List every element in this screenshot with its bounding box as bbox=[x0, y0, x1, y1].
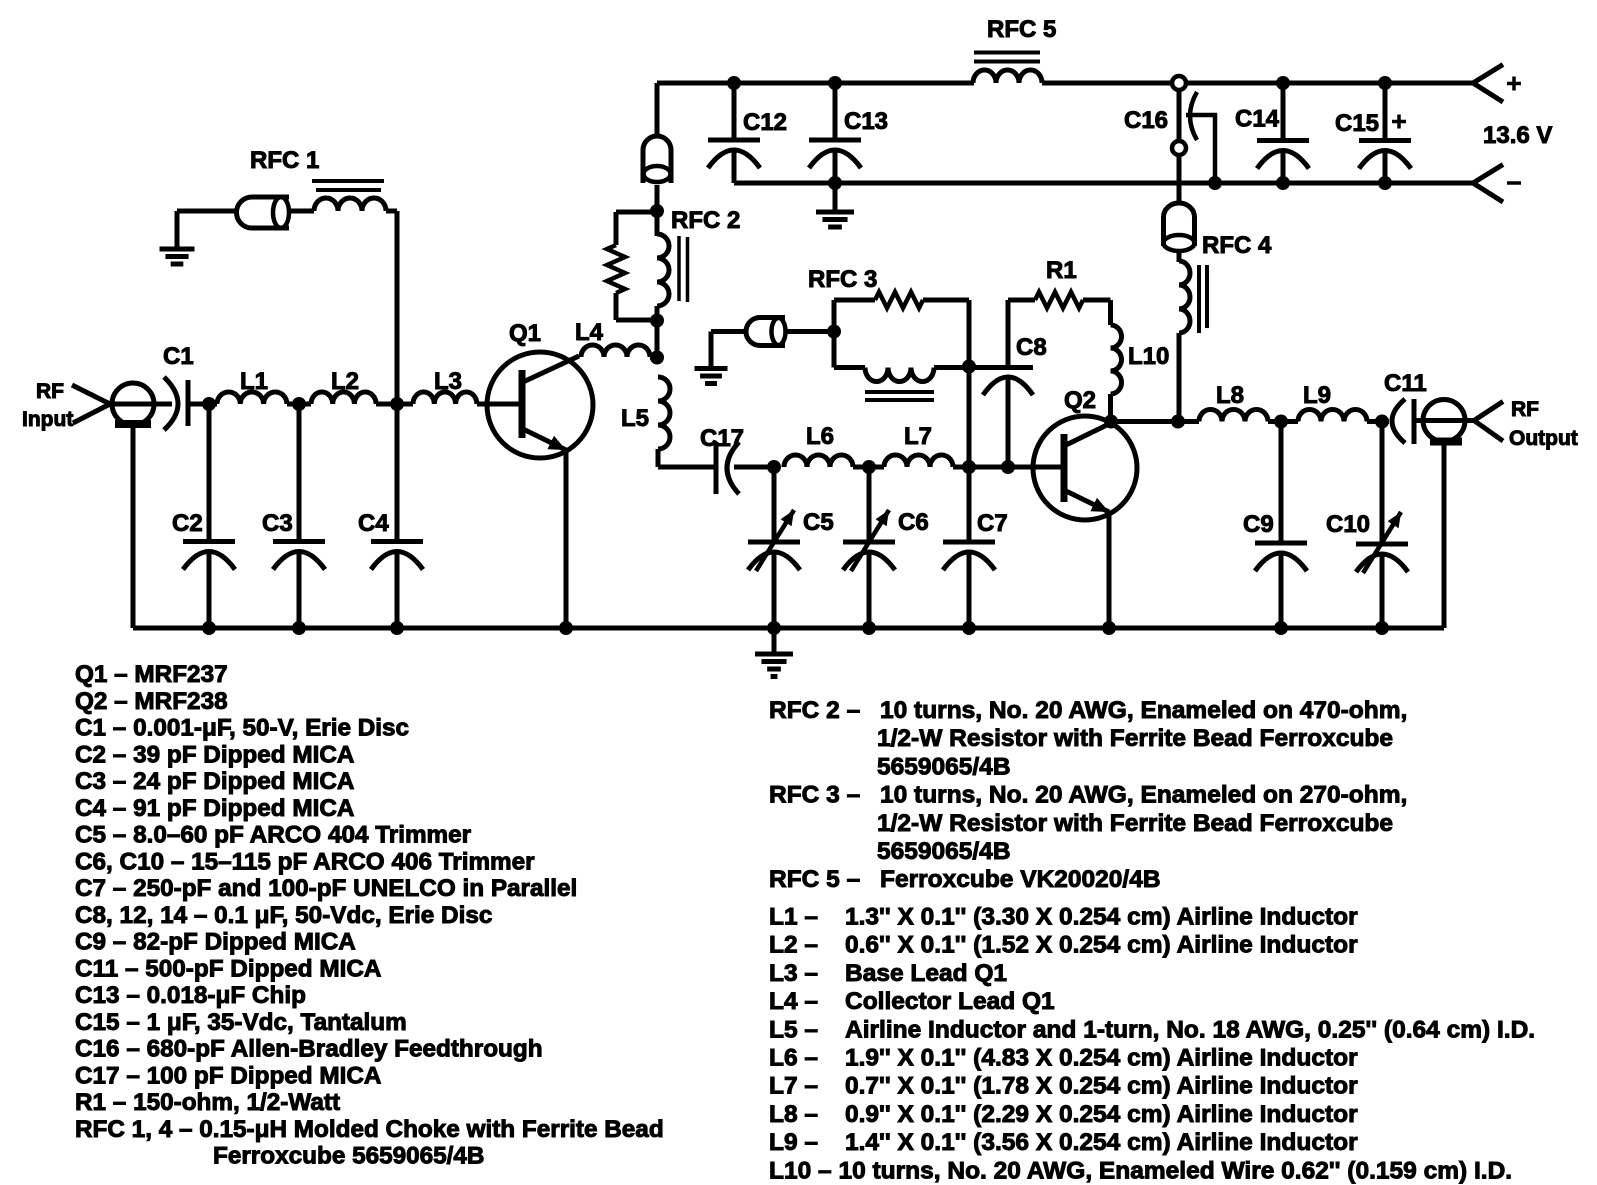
svg-text:C6, C10 – 15–115 pF ARCO 406 T: C6, C10 – 15–115 pF ARCO 406 Trimmer bbox=[75, 848, 535, 875]
svg-text:L6 –: L6 – bbox=[769, 1045, 818, 1072]
svg-text:1.3'' X 0.1'' (3.30 X 0.254 cm: 1.3'' X 0.1'' (3.30 X 0.254 cm) Airline … bbox=[845, 904, 1358, 931]
svg-text:C13: C13 bbox=[844, 108, 888, 135]
svg-text:C16 – 680-pF Allen-Bradley Fee: C16 – 680-pF Allen-Bradley Feedthrough bbox=[75, 1036, 543, 1063]
svg-text:C15: C15 bbox=[1335, 110, 1379, 137]
svg-text:Ferroxcube VK20020/4B: Ferroxcube VK20020/4B bbox=[880, 866, 1161, 893]
svg-text:0.6'' X 0.1'' (1.52 X 0.254 cm: 0.6'' X 0.1'' (1.52 X 0.254 cm) Airline … bbox=[845, 932, 1358, 959]
svg-text:C4: C4 bbox=[358, 510, 389, 537]
svg-text:L8: L8 bbox=[1216, 382, 1244, 409]
svg-text:Q1: Q1 bbox=[509, 320, 541, 347]
svg-text:RFC 3: RFC 3 bbox=[808, 266, 877, 293]
svg-text:L9 –: L9 – bbox=[769, 1129, 818, 1156]
svg-text:L5: L5 bbox=[621, 405, 649, 432]
svg-text:C8, 12, 14 – 0.1 μF, 50-Vdc, E: C8, 12, 14 – 0.1 μF, 50-Vdc, Erie Disc bbox=[75, 902, 492, 929]
svg-text:Q2: Q2 bbox=[1064, 387, 1096, 414]
svg-text:0.9'' X 0.1'' (2.29 X 0.254 cm: 0.9'' X 0.1'' (2.29 X 0.254 cm) Airline … bbox=[845, 1101, 1358, 1128]
svg-text:C16: C16 bbox=[1124, 107, 1168, 134]
svg-text:C17 – 100 pF Dipped MICA: C17 – 100 pF Dipped MICA bbox=[75, 1062, 381, 1089]
svg-text:RFC 5 –: RFC 5 – bbox=[769, 866, 860, 893]
svg-text:L5 –: L5 – bbox=[769, 1016, 818, 1043]
svg-text:C3: C3 bbox=[262, 510, 293, 537]
svg-text:R1: R1 bbox=[1046, 257, 1077, 284]
svg-text:C5: C5 bbox=[803, 509, 834, 536]
svg-text:L10: L10 bbox=[1128, 343, 1169, 370]
svg-text:C9 – 82-pF Dipped MICA: C9 – 82-pF Dipped MICA bbox=[75, 929, 356, 956]
svg-text:L7 –: L7 – bbox=[769, 1073, 818, 1100]
svg-text:Base Lead Q1: Base Lead Q1 bbox=[845, 960, 1007, 987]
svg-text:C10: C10 bbox=[1326, 511, 1370, 538]
svg-text:Q1 – MRF237: Q1 – MRF237 bbox=[75, 661, 228, 688]
svg-text:C9: C9 bbox=[1243, 511, 1274, 538]
svg-text:C7: C7 bbox=[977, 510, 1008, 537]
svg-text:RFC 1: RFC 1 bbox=[250, 147, 319, 174]
svg-text:C1 – 0.001-μF, 50-V, Erie Disc: C1 – 0.001-μF, 50-V, Erie Disc bbox=[75, 715, 409, 742]
svg-text:C11: C11 bbox=[1384, 370, 1427, 397]
svg-text:C3 – 24 pF Dipped MICA: C3 – 24 pF Dipped MICA bbox=[75, 768, 354, 795]
svg-text:0.7'' X 0.1'' (1.78 X 0.254 cm: 0.7'' X 0.1'' (1.78 X 0.254 cm) Airline … bbox=[845, 1073, 1358, 1100]
svg-text:1/2-W Resistor with Ferrite Be: 1/2-W Resistor with Ferrite Bead Ferroxc… bbox=[877, 810, 1393, 837]
svg-text:C5 – 8.0–60 pF ARCO 404 Trimme: C5 – 8.0–60 pF ARCO 404 Trimmer bbox=[75, 822, 472, 849]
svg-text:RFC 2 –: RFC 2 – bbox=[769, 697, 860, 724]
svg-text:1/2-W Resistor with Ferrite Be: 1/2-W Resistor with Ferrite Bead Ferroxc… bbox=[877, 725, 1393, 752]
svg-text:L2 –: L2 – bbox=[769, 932, 818, 959]
svg-text:L6: L6 bbox=[806, 423, 834, 450]
svg-text:C2: C2 bbox=[172, 510, 203, 537]
svg-text:C7 – 250-pF and 100-pF UNELCO: C7 – 250-pF and 100-pF UNELCO in Paralle… bbox=[75, 875, 577, 902]
svg-text:RFC 4: RFC 4 bbox=[1202, 232, 1272, 259]
svg-text:L9: L9 bbox=[1303, 382, 1331, 409]
svg-text:C8: C8 bbox=[1016, 334, 1047, 361]
svg-text:L2: L2 bbox=[331, 368, 359, 395]
svg-text:5659065/4B: 5659065/4B bbox=[877, 753, 1011, 780]
svg-text:C13 – 0.018-μF Chip: C13 – 0.018-μF Chip bbox=[75, 982, 306, 1009]
svg-text:L4 –: L4 – bbox=[769, 988, 818, 1015]
svg-text:Input: Input bbox=[22, 408, 73, 431]
svg-text:RFC 2: RFC 2 bbox=[671, 207, 740, 234]
svg-text:Airline Inductor and 1-turn, N: Airline Inductor and 1-turn, No. 18 AWG,… bbox=[845, 1016, 1535, 1043]
svg-text:Q2 – MRF238: Q2 – MRF238 bbox=[75, 688, 228, 715]
svg-text:13.6 V: 13.6 V bbox=[1483, 122, 1552, 149]
svg-text:L3: L3 bbox=[434, 368, 462, 395]
svg-text:L1: L1 bbox=[240, 368, 268, 395]
svg-text:C2 – 39 pF Dipped MICA: C2 – 39 pF Dipped MICA bbox=[75, 741, 354, 768]
svg-text:L4: L4 bbox=[575, 319, 604, 346]
svg-text:L10 – 10 turns, No. 20 AWG, En: L10 – 10 turns, No. 20 AWG, Enameled Wir… bbox=[769, 1157, 1512, 1184]
svg-text:Ferroxcube 5659065/4B: Ferroxcube 5659065/4B bbox=[213, 1143, 484, 1170]
svg-text:C15 – 1 μF, 35-Vdc, Tantalum: C15 – 1 μF, 35-Vdc, Tantalum bbox=[75, 1009, 407, 1036]
svg-text:1.4'' X 0.1'' (3.56 X 0.254 cm: 1.4'' X 0.1'' (3.56 X 0.254 cm) Airline … bbox=[845, 1129, 1358, 1156]
svg-text:C4 – 91 pF Dipped MICA: C4 – 91 pF Dipped MICA bbox=[75, 795, 354, 822]
svg-text:Collector Lead Q1: Collector Lead Q1 bbox=[845, 988, 1055, 1015]
svg-text:L8 –: L8 – bbox=[769, 1101, 818, 1128]
svg-text:RFC 5: RFC 5 bbox=[987, 16, 1056, 43]
svg-text:RF: RF bbox=[36, 380, 64, 403]
svg-text:10 turns, No. 20 AWG, Enameled: 10 turns, No. 20 AWG, Enameled on 270-oh… bbox=[880, 782, 1407, 809]
svg-text:R1 – 150-ohm, 1/2-Watt: R1 – 150-ohm, 1/2-Watt bbox=[75, 1089, 340, 1116]
svg-text:C14: C14 bbox=[1235, 106, 1280, 133]
svg-text:5659065/4B: 5659065/4B bbox=[877, 838, 1011, 865]
svg-text:L1 –: L1 – bbox=[769, 904, 818, 931]
svg-text:L3 –: L3 – bbox=[769, 960, 818, 987]
svg-text:1.9'' X 0.1'' (4.83 X 0.254 cm: 1.9'' X 0.1'' (4.83 X 0.254 cm) Airline … bbox=[845, 1045, 1358, 1072]
svg-text:C1: C1 bbox=[163, 343, 194, 370]
svg-text:RFC 3 –: RFC 3 – bbox=[769, 782, 860, 809]
svg-text:10 turns, No. 20 AWG, Enameled: 10 turns, No. 20 AWG, Enameled on 470-oh… bbox=[880, 697, 1407, 724]
svg-text:RFC 1, 4 – 0.15-μH Molded Chok: RFC 1, 4 – 0.15-μH Molded Choke with Fer… bbox=[75, 1116, 664, 1143]
svg-text:C11 – 500-pF Dipped MICA: C11 – 500-pF Dipped MICA bbox=[75, 955, 381, 982]
svg-text:C6: C6 bbox=[898, 509, 929, 536]
svg-text:C12: C12 bbox=[743, 109, 787, 136]
svg-text:RF: RF bbox=[1511, 398, 1539, 421]
svg-text:L7: L7 bbox=[904, 423, 932, 450]
svg-text:Output: Output bbox=[1509, 427, 1578, 450]
svg-text:C17: C17 bbox=[700, 425, 744, 452]
